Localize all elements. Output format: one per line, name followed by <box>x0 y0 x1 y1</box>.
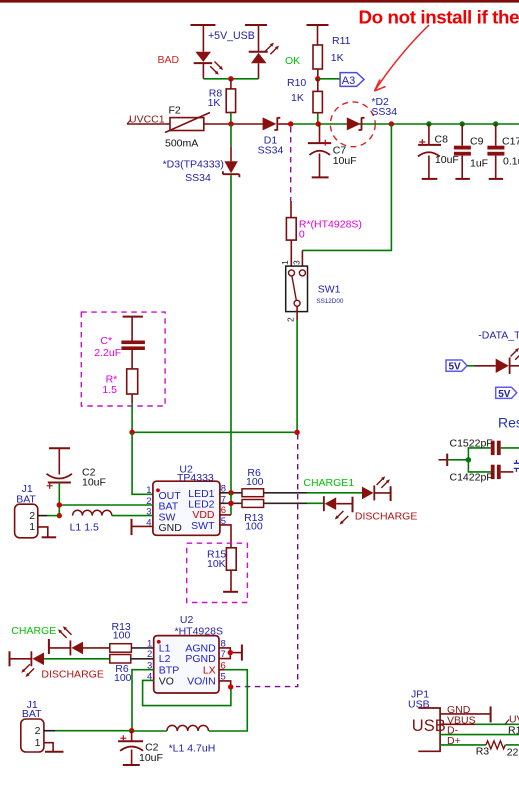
resistor R8 1K <box>208 79 236 124</box>
svg-text:0.1u: 0.1u <box>503 156 519 168</box>
wire D2-out down and over to SW1 pin3 <box>302 124 391 250</box>
junction node rail x291 <box>288 121 293 126</box>
IC U2 *HT4928S <box>147 614 226 693</box>
wire SW1 pin2 down to junction row <box>296 306 298 432</box>
inductor *L1 4.7uH <box>132 725 216 754</box>
connector J1 BAT (upper) <box>15 483 60 538</box>
svg-text:10K: 10K <box>207 558 226 570</box>
power bar +5V_USB (left, above BAD LED) <box>191 25 216 52</box>
dashed option box around C* R* <box>81 312 165 406</box>
capacitor C7 10uF <box>308 124 357 177</box>
svg-text:1: 1 <box>146 485 151 496</box>
junction node left <box>129 430 134 435</box>
capacitor C* 2.2uF <box>94 335 145 369</box>
connector JP1 USB <box>408 688 446 751</box>
svg-text:1: 1 <box>35 737 41 749</box>
svg-text:R11: R11 <box>332 35 351 47</box>
svg-text:2.2uF: 2.2uF <box>94 347 121 359</box>
wire AGND/PGND tie <box>219 648 242 659</box>
pin GND <box>440 704 491 716</box>
svg-text:500mA: 500mA <box>165 137 198 149</box>
wire to CHARGE1 LED <box>307 492 362 494</box>
svg-text:5V: 5V <box>449 362 462 373</box>
junction node rail/R10-C7 <box>316 121 321 126</box>
svg-text:1K: 1K <box>331 52 344 64</box>
wire rail F2 to D1 <box>204 123 263 125</box>
diode D1 SS34 <box>258 117 291 156</box>
net flag A3 <box>340 73 364 87</box>
wire LED commons to R8 <box>203 78 258 80</box>
wire to A3 flag <box>318 78 340 80</box>
capacitor C14 22pF <box>450 465 514 484</box>
ground bar R15 <box>223 591 238 593</box>
svg-text:10uF: 10uF <box>139 752 163 764</box>
svg-text:5V: 5V <box>498 389 511 400</box>
resistor R* 1.5 <box>102 369 137 403</box>
wire LX pin6 down to L1 <box>209 670 248 731</box>
junction node rail/D2 out <box>389 121 394 126</box>
resistor R* (HT4928S) 0 <box>286 201 362 270</box>
annotation arrow <box>375 25 430 91</box>
wire R* to junction row <box>131 403 133 432</box>
fuse F2 500mA <box>165 105 210 150</box>
svg-text:1: 1 <box>280 260 290 265</box>
port UVCC1 (cut at edge) <box>505 713 519 725</box>
svg-text:1.5: 1.5 <box>102 384 117 396</box>
svg-text:SWT: SWT <box>191 520 215 532</box>
ground bar J1 pin1 (lower) <box>44 743 64 752</box>
LED CHARGE1 (points right) <box>362 476 391 500</box>
svg-text:Reset: Reset <box>498 415 519 431</box>
svg-text:*D3(TP4333): *D3(TP4333) <box>163 158 224 170</box>
dashed option wire down to HT4928S VO/IN <box>236 434 298 687</box>
svg-text:1uF: 1uF <box>470 157 488 169</box>
wire bar to CHARGE LED <box>49 647 71 649</box>
svg-text:3: 3 <box>292 260 302 265</box>
power bar +5V_USB (mid, above OK LED) <box>245 25 267 51</box>
junction node rail/C17 <box>493 121 498 126</box>
dashed option box around R15 <box>187 543 248 602</box>
svg-text:C*: C* <box>100 335 112 347</box>
terminal bar GND (USB) <box>490 706 492 722</box>
terminal bar AGND <box>241 645 243 661</box>
svg-text:2: 2 <box>35 725 41 737</box>
svg-text:DISCHARGE: DISCHARGE <box>41 668 103 680</box>
resistor R6 100 (upper) <box>242 467 307 496</box>
power bar above C* <box>123 317 143 341</box>
LED DISCHARGE lower (points left) <box>21 651 110 677</box>
svg-text:-DATA_TX: -DATA_TX <box>478 330 519 342</box>
svg-text:DISCHARGE: DISCHARGE <box>355 511 417 523</box>
resistor R13 100 (upper) <box>242 500 307 533</box>
wire to DISCHARGE LED <box>307 502 324 504</box>
svg-text:0: 0 <box>299 229 305 241</box>
port UVCC1 <box>127 114 166 126</box>
svg-text:100: 100 <box>246 476 264 488</box>
net flag 5V (lower, cut) <box>496 387 517 400</box>
wire junction row horizontal <box>132 431 297 433</box>
wire BAT pin2 row <box>59 504 153 506</box>
resistor R6 100 (lower) <box>110 655 154 685</box>
svg-text:R3: R3 <box>476 746 490 758</box>
wire U2 pin8 LED1 <box>220 492 242 494</box>
svg-text:+5V_USB: +5V_USB <box>208 30 255 42</box>
terminal bar CHARGE lower <box>48 639 50 654</box>
annotation dashed circle around D2 <box>330 102 375 147</box>
pin D+ <box>440 735 486 747</box>
capacitor C2 10uF (upper) <box>47 467 106 516</box>
svg-text:OK: OK <box>285 55 300 67</box>
svg-text:TP4333: TP4333 <box>177 472 214 484</box>
svg-text:SW1: SW1 <box>318 283 341 295</box>
resistor R3 22 (zigzag) <box>476 741 519 759</box>
power bar +5V_USB (above R11) <box>307 25 329 45</box>
wire bar to DISCHARGE LED <box>10 658 32 660</box>
wire rail junction down to D3 <box>230 124 232 147</box>
svg-text:*L1 4.7uH: *L1 4.7uH <box>169 743 216 755</box>
wire 5V flag to LED <box>467 365 496 367</box>
svg-text:C1422pF: C1422pF <box>450 471 493 483</box>
svg-text:VO: VO <box>159 675 174 687</box>
diode D3 SS34 (cathode down) <box>163 147 240 184</box>
svg-text:SS34: SS34 <box>258 145 284 157</box>
wire BTP pin3 down to battery node <box>132 670 154 731</box>
junction node battery plus <box>129 728 134 733</box>
svg-text:R1: R1 <box>508 725 519 737</box>
junction node pin7 <box>228 501 233 506</box>
capacitor C2 10uF (lower) <box>118 731 163 765</box>
svg-text:GND: GND <box>159 522 183 534</box>
wire rail green section <box>291 123 519 125</box>
wire down to C14 <box>468 460 490 472</box>
svg-text:Do not install if the: Do not install if the <box>359 7 519 28</box>
sheet top border <box>0 0 519 3</box>
wire D3 cathode down to LED1 pins (long vertical) <box>230 175 232 493</box>
svg-text:F2: F2 <box>169 105 181 117</box>
terminal bar DISCHARGE upper <box>352 497 354 513</box>
diode D2 SS34 (do not install) <box>347 96 397 131</box>
net flag 5V (upper) <box>446 360 467 373</box>
junction node rail/C9 <box>460 121 465 126</box>
svg-text:100: 100 <box>245 521 263 533</box>
capacitor C17 0.1uF <box>487 124 519 179</box>
svg-text:CHARGE1: CHARGE1 <box>303 477 354 489</box>
junction node AGND/PGND <box>228 650 233 655</box>
wire up to C15 <box>468 448 490 460</box>
svg-text:L1 1.5: L1 1.5 <box>70 522 99 534</box>
junction node right <box>294 430 299 435</box>
junction node VO/IN <box>228 684 233 689</box>
switch SW1 SS12D00 <box>280 250 344 322</box>
junction node C15/C14 <box>466 457 471 462</box>
junction node A3 <box>315 76 320 81</box>
terminal bar CHARGE1 <box>390 486 392 501</box>
svg-text:U2: U2 <box>180 614 194 626</box>
wire U2 pin7 LED2 <box>220 502 242 504</box>
wire U2 pin6 VDD stub <box>220 514 231 516</box>
junction node rail/C8 <box>426 121 431 126</box>
resonator stub (cut at edge) <box>514 460 519 472</box>
svg-text:A3: A3 <box>342 75 355 87</box>
LED BAD (D, cathode down) <box>194 52 223 79</box>
pin VBUS <box>440 714 519 726</box>
svg-text:1: 1 <box>29 521 35 533</box>
capacitor C9 1uF <box>454 124 488 179</box>
capacitor C8 10uF <box>418 124 459 179</box>
svg-text:SS12D00: SS12D00 <box>316 298 343 305</box>
svg-text:100: 100 <box>114 672 132 684</box>
junction node J1/L1 <box>57 513 62 518</box>
connector J1 BAT (lower) <box>21 699 132 752</box>
svg-text:1K: 1K <box>208 97 221 109</box>
svg-text:C17: C17 <box>502 136 519 148</box>
svg-text:*HT4928S: *HT4928S <box>175 625 223 637</box>
resistor R11 1K <box>313 35 351 79</box>
terminal bar DISCHARGE lower <box>9 651 11 666</box>
dashed option wire rail to R* <box>290 127 292 201</box>
IC U2 TP4333 <box>146 463 226 535</box>
wire U2 pin5 SWT to R15 <box>220 525 231 548</box>
resistor R10 1K <box>287 77 322 124</box>
terminal bar C15/C14 common <box>439 454 448 466</box>
LED OK (cathode up) <box>249 43 279 79</box>
capacitor C15 22pF <box>450 438 519 456</box>
svg-text:D+: D+ <box>447 735 461 747</box>
svg-text:R*(HT4928S): R*(HT4928S) <box>299 218 362 230</box>
resistor R15 10K <box>207 548 236 592</box>
wire junction down to U2 OUT pin <box>132 432 153 494</box>
svg-text:10uF: 10uF <box>435 154 459 166</box>
svg-text:CHARGE: CHARGE <box>11 625 56 637</box>
resistor R13 100 (lower) <box>110 621 154 652</box>
svg-text:1K: 1K <box>291 92 304 104</box>
pin D- <box>440 725 519 737</box>
svg-text:UV: UV <box>509 713 519 725</box>
junction node pin8 <box>228 490 233 495</box>
svg-text:SS34: SS34 <box>185 172 211 184</box>
svg-text:USB: USB <box>412 717 446 735</box>
junction node at R8 top <box>228 76 233 81</box>
svg-text:C8: C8 <box>435 133 449 145</box>
junction node C2/BAT <box>57 502 62 507</box>
svg-text:SS34: SS34 <box>371 106 397 118</box>
svg-text:BAD: BAD <box>158 54 180 66</box>
svg-text:2: 2 <box>286 317 296 322</box>
LED DISCHARGE upper (points left) <box>324 496 353 524</box>
LED CHARGE (points left) <box>58 626 110 655</box>
ground bar J1 pin1 (upper) <box>38 527 56 537</box>
svg-text:22: 22 <box>507 746 519 758</box>
junction node rail/R8 <box>228 121 233 126</box>
ground bar U2 pin4 (sideways) <box>132 519 153 535</box>
power bar above C2 <box>49 448 70 474</box>
wire VO pin4 loop under IC <box>143 680 231 705</box>
wire pins 8-7-6 tie vertical <box>230 493 232 515</box>
svg-text:100: 100 <box>113 630 131 642</box>
wire VO/IN pin5 <box>219 681 231 687</box>
inductor L1 1.5 <box>70 510 153 533</box>
svg-text:C1522pF: C1522pF <box>450 438 493 450</box>
LED -DATA (points right) <box>496 348 519 374</box>
svg-text:VO/IN: VO/IN <box>187 675 216 687</box>
svg-text:10uF: 10uF <box>333 155 357 167</box>
svg-text:10uF: 10uF <box>82 477 106 489</box>
wire common to junction <box>447 459 468 461</box>
svg-text:R10: R10 <box>287 77 306 89</box>
svg-text:C9: C9 <box>470 136 484 148</box>
